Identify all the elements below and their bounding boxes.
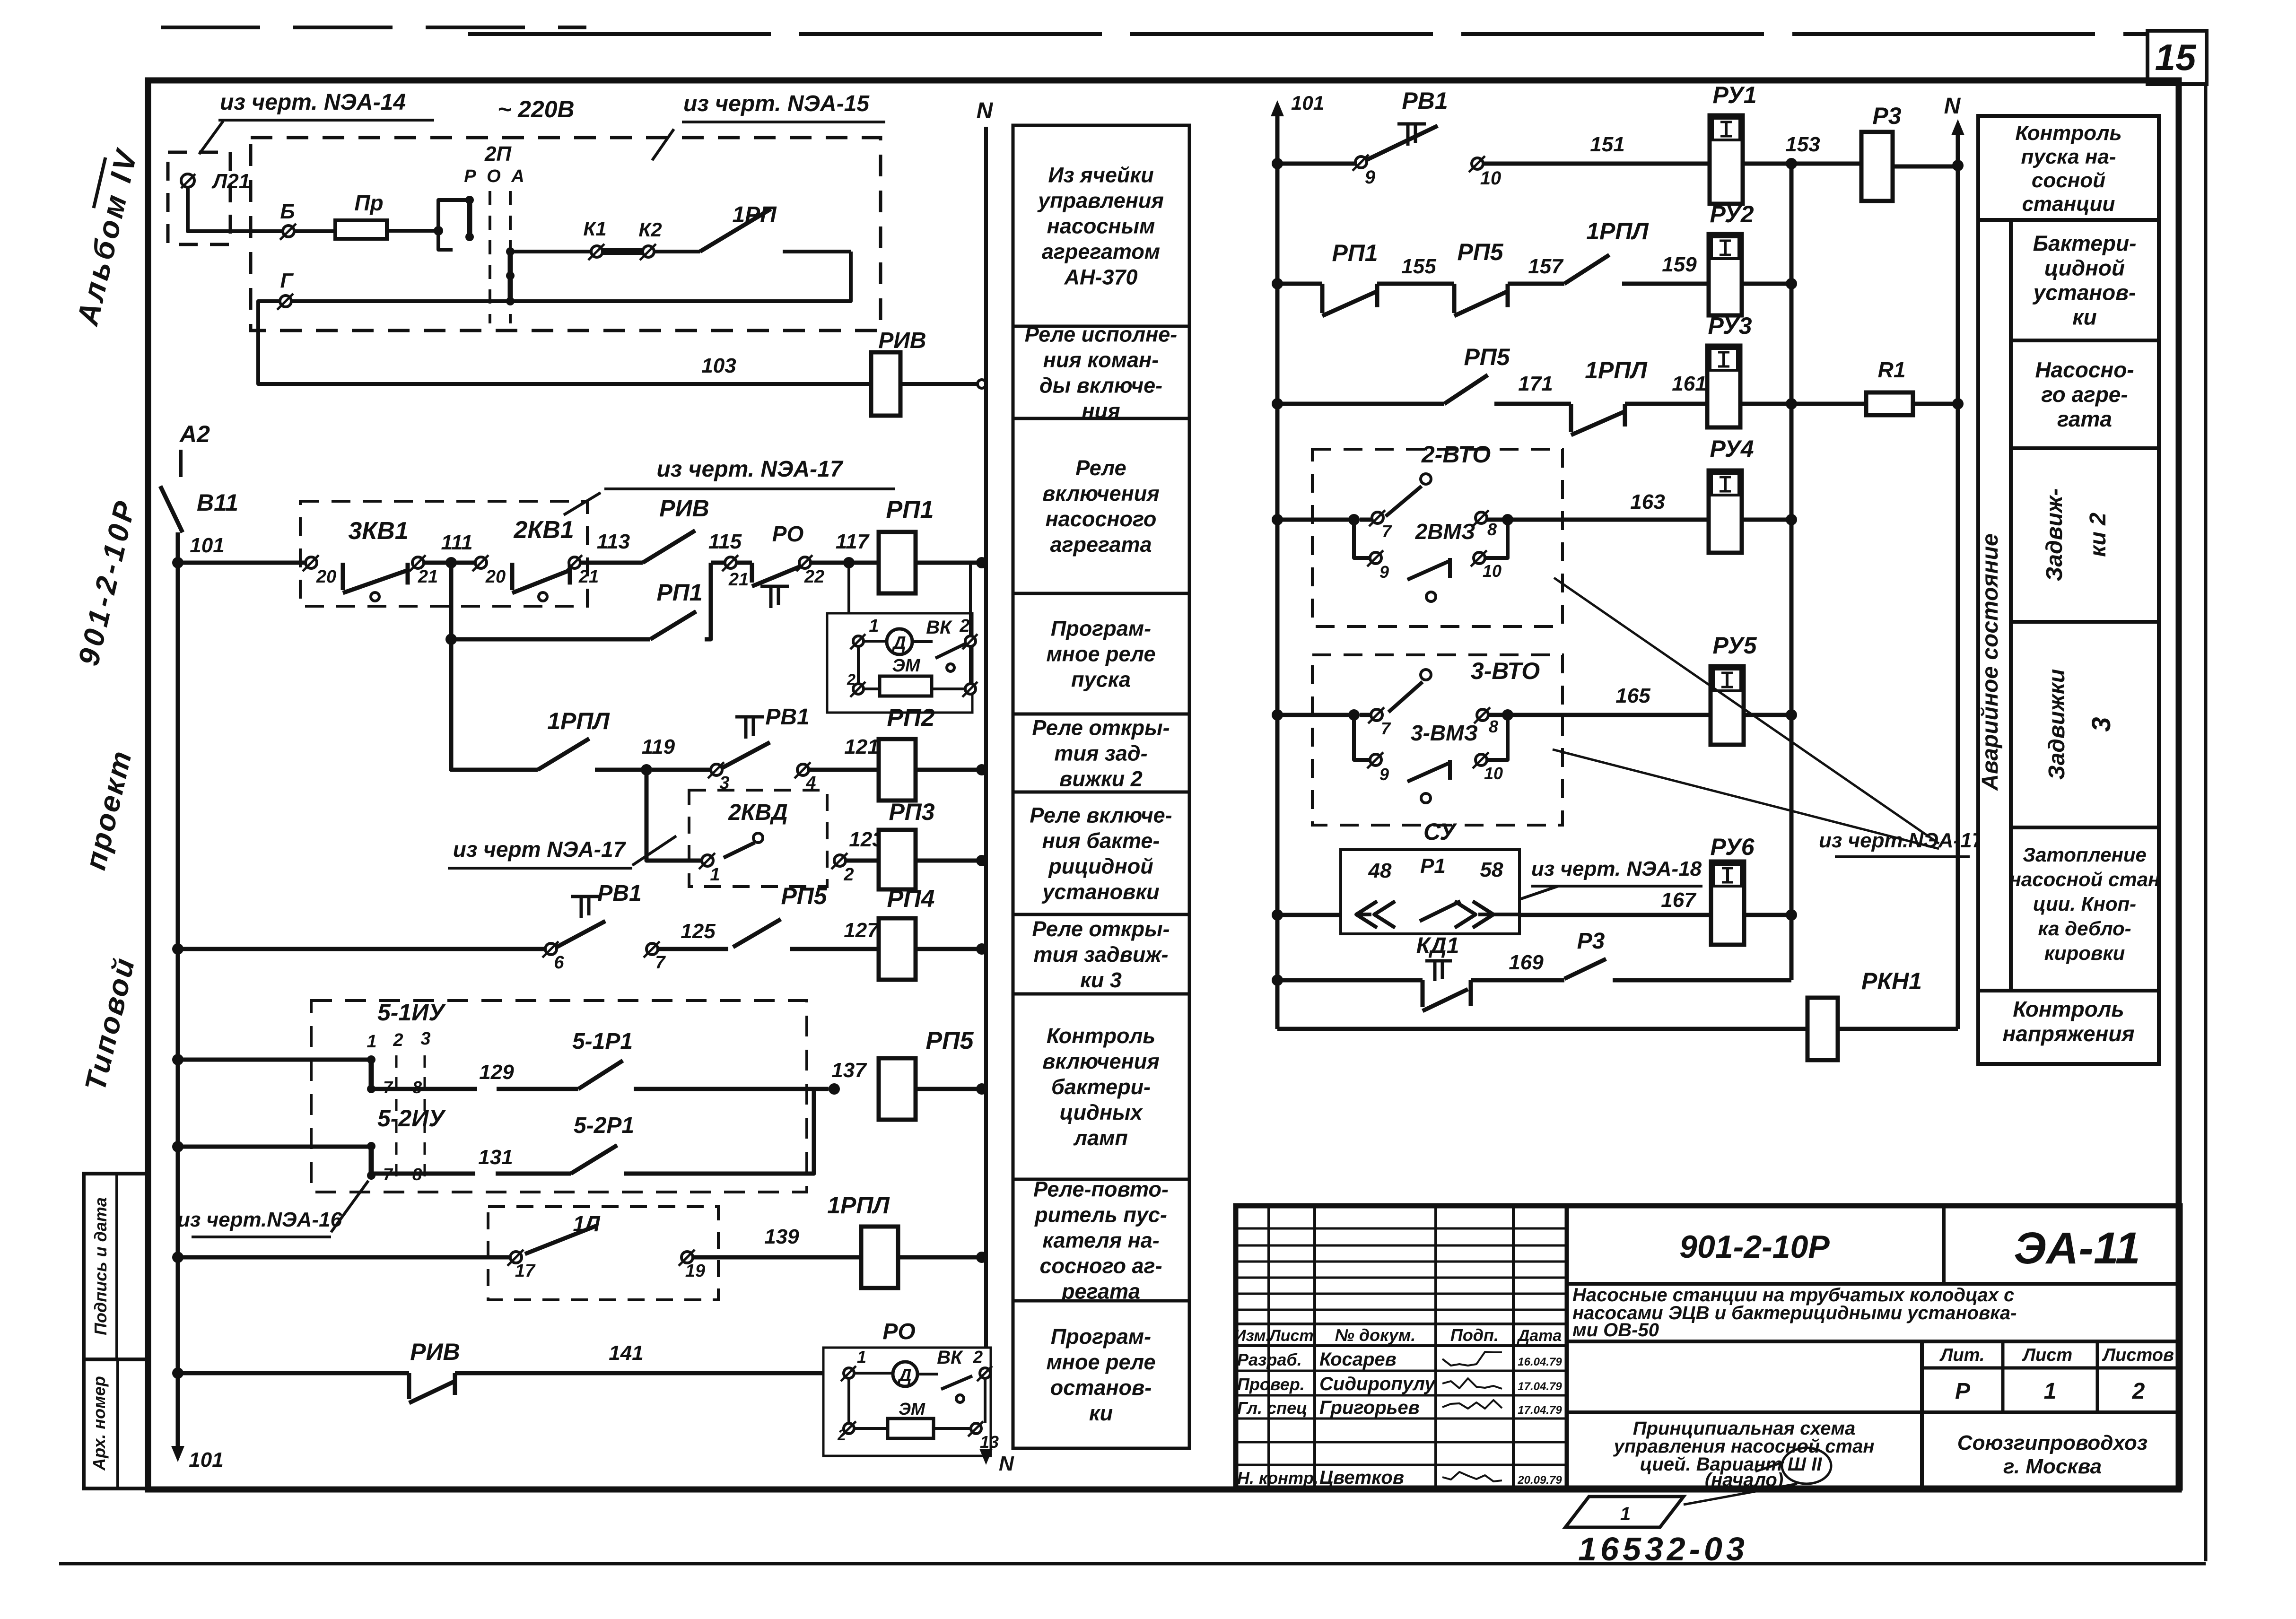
svg-text:из черт. NЭА-18: из черт. NЭА-18 xyxy=(1531,857,1702,880)
svg-text:ми ОВ-50: ми ОВ-50 xyxy=(1572,1320,1659,1340)
svg-text:901-2-10Р: 901-2-10Р xyxy=(1679,1229,1830,1265)
svg-text:17: 17 xyxy=(515,1261,536,1281)
svg-text:1: 1 xyxy=(869,616,879,636)
svg-text:А2: А2 xyxy=(179,421,210,447)
svg-text:2КВ1: 2КВ1 xyxy=(513,516,574,544)
svg-text:Косарев: Косарев xyxy=(1319,1349,1397,1370)
svg-text:20.09.79: 20.09.79 xyxy=(1517,1474,1562,1487)
svg-text:169: 169 xyxy=(1509,951,1544,974)
svg-text:111: 111 xyxy=(441,531,473,554)
svg-text:ния бакте-: ния бакте- xyxy=(1042,829,1160,853)
svg-text:121: 121 xyxy=(844,735,879,758)
svg-text:станции: станции xyxy=(2022,192,2115,216)
svg-text:8: 8 xyxy=(1487,520,1497,539)
svg-text:1Л: 1Л xyxy=(573,1211,601,1236)
svg-text:ния коман-: ния коман- xyxy=(1043,348,1159,372)
svg-text:из черт.NЭА-17: из черт.NЭА-17 xyxy=(1819,829,1985,852)
svg-text:Задвижки: Задвижки xyxy=(2044,669,2069,780)
svg-text:119: 119 xyxy=(642,735,675,758)
svg-text:20: 20 xyxy=(485,567,506,587)
svg-text:Реле-повто-: Реле-повто- xyxy=(1033,1177,1169,1201)
svg-text:Насосно-: Насосно- xyxy=(2035,357,2134,382)
svg-text:кировки: кировки xyxy=(2044,942,2125,964)
svg-text:ды включе-: ды включе- xyxy=(1039,374,1162,398)
svg-text:N: N xyxy=(1944,94,1961,119)
svg-text:10: 10 xyxy=(1483,561,1502,581)
svg-text:Разраб.: Разраб. xyxy=(1237,1350,1302,1369)
svg-text:58: 58 xyxy=(1480,858,1503,881)
svg-text:3-ВТО: 3-ВТО xyxy=(1471,658,1540,684)
svg-text:РУ5: РУ5 xyxy=(1712,632,1757,659)
svg-text:5-1ИУ: 5-1ИУ xyxy=(377,999,446,1026)
svg-text:ритель пус-: ритель пус- xyxy=(1034,1203,1167,1227)
svg-text:РП5: РП5 xyxy=(925,1027,974,1054)
svg-text:из черт. NЭА-15: из черт. NЭА-15 xyxy=(683,91,870,116)
svg-text:163: 163 xyxy=(1630,490,1665,514)
svg-text:1РПЛ: 1РПЛ xyxy=(547,708,610,734)
svg-text:13: 13 xyxy=(980,1432,999,1452)
svg-text:включения: включения xyxy=(1042,481,1160,505)
svg-text:Пр: Пр xyxy=(354,191,383,215)
svg-text:17.04.79: 17.04.79 xyxy=(1518,1404,1562,1417)
svg-text:Контроль: Контроль xyxy=(2013,997,2124,1021)
svg-text:насосного: насосного xyxy=(1046,507,1157,531)
svg-text:включения: включения xyxy=(1042,1049,1160,1073)
svg-text:2ВМЗ: 2ВМЗ xyxy=(1415,519,1475,544)
svg-text:Листов: Листов xyxy=(2102,1345,2174,1365)
svg-text:1: 1 xyxy=(710,865,720,885)
svg-text:Задвиж-: Задвиж- xyxy=(2042,488,2067,582)
svg-text:цидных: цидных xyxy=(1059,1100,1143,1124)
svg-text:131: 131 xyxy=(478,1146,513,1169)
svg-text:2: 2 xyxy=(843,865,854,885)
svg-text:5-1Р1: 5-1Р1 xyxy=(572,1029,633,1054)
svg-text:ции. Кноп-: ции. Кноп- xyxy=(2033,893,2136,915)
svg-text:из черт.NЭА-16: из черт.NЭА-16 xyxy=(177,1208,342,1231)
svg-text:Реле: Реле xyxy=(1075,456,1126,480)
svg-text:16.04.79: 16.04.79 xyxy=(1518,1356,1562,1368)
svg-text:1РПЛ: 1РПЛ xyxy=(1585,357,1648,383)
svg-text:КД1: КД1 xyxy=(1416,933,1459,958)
svg-text:СУ: СУ xyxy=(1423,818,1458,845)
svg-text:РУ3: РУ3 xyxy=(1708,313,1752,339)
svg-text:тия задвиж-: тия задвиж- xyxy=(1033,942,1168,966)
svg-text:5-2ИУ: 5-2ИУ xyxy=(377,1105,446,1132)
svg-text:РИВ: РИВ xyxy=(878,328,926,353)
svg-text:РП5: РП5 xyxy=(781,883,827,909)
svg-text:Д: Д xyxy=(897,1366,911,1385)
svg-text:ЭМ: ЭМ xyxy=(899,1399,925,1419)
svg-text:кателя на-: кателя на- xyxy=(1042,1228,1160,1253)
svg-text:РП5: РП5 xyxy=(1464,344,1510,370)
svg-text:Програм-: Програм- xyxy=(1051,617,1151,641)
svg-text:Альбом IV: Альбом IV xyxy=(70,145,144,330)
svg-text:Подп.: Подп. xyxy=(1450,1325,1499,1345)
svg-text:157: 157 xyxy=(1528,255,1564,278)
svg-text:113: 113 xyxy=(597,530,630,553)
svg-text:РУ6: РУ6 xyxy=(1710,834,1755,860)
svg-text:1: 1 xyxy=(1620,1504,1631,1524)
svg-text:В11: В11 xyxy=(197,489,238,516)
svg-text:Реле откры-: Реле откры- xyxy=(1032,917,1170,941)
svg-text:управления: управления xyxy=(1037,189,1164,213)
svg-text:ки 3: ки 3 xyxy=(1080,968,1122,992)
svg-text:РП1: РП1 xyxy=(656,579,702,606)
svg-text:Реле откры-: Реле откры- xyxy=(1032,716,1170,740)
svg-text:Контроль: Контроль xyxy=(2015,122,2121,145)
svg-text:9: 9 xyxy=(1379,562,1389,582)
svg-text:127: 127 xyxy=(844,919,880,942)
svg-text:129: 129 xyxy=(479,1061,514,1084)
svg-text:Реле включе-: Реле включе- xyxy=(1030,803,1172,827)
svg-text:РП1: РП1 xyxy=(1332,240,1378,266)
svg-text:139: 139 xyxy=(764,1225,799,1248)
svg-text:N: N xyxy=(999,1452,1014,1475)
svg-text:Н. контр.: Н. контр. xyxy=(1237,1468,1318,1488)
svg-text:N: N xyxy=(977,98,994,123)
svg-text:Подпись и дата: Подпись и дата xyxy=(91,1197,110,1335)
svg-text:РКН1: РКН1 xyxy=(1861,968,1922,994)
svg-text:агрегатом: агрегатом xyxy=(1042,240,1160,264)
svg-text:Гл. спец: Гл. спец xyxy=(1237,1398,1307,1418)
svg-text:2: 2 xyxy=(2132,1379,2145,1404)
svg-text:15: 15 xyxy=(2155,36,2197,78)
svg-text:РВ1: РВ1 xyxy=(1402,87,1448,114)
svg-text:рицидной: рицидной xyxy=(1048,854,1153,879)
svg-text:~ 220В: ~ 220В xyxy=(498,96,575,122)
svg-text:Г: Г xyxy=(280,269,294,292)
svg-text:171: 171 xyxy=(1518,372,1553,395)
svg-text:мное реле: мное реле xyxy=(1047,1350,1156,1374)
svg-text:РП1: РП1 xyxy=(886,496,934,523)
svg-text:ламп: ламп xyxy=(1073,1126,1128,1150)
svg-text:3: 3 xyxy=(2086,717,2116,731)
svg-text:останов-: останов- xyxy=(1050,1375,1152,1400)
svg-text:1РПЛ: 1РПЛ xyxy=(1586,218,1649,244)
svg-text:цидной: цидной xyxy=(2044,256,2125,280)
svg-text:1: 1 xyxy=(2044,1379,2057,1404)
svg-text:Лит.: Лит. xyxy=(1939,1345,1984,1365)
svg-text:РВ1: РВ1 xyxy=(597,881,641,906)
svg-text:РУ4: РУ4 xyxy=(1710,435,1754,462)
svg-text:мное реле: мное реле xyxy=(1047,642,1156,666)
svg-text:РО: РО xyxy=(772,522,804,546)
svg-text:РИВ: РИВ xyxy=(659,495,709,522)
svg-text:Р3: Р3 xyxy=(1872,103,1901,129)
svg-text:9: 9 xyxy=(1365,167,1376,188)
svg-text:гата: гата xyxy=(2057,407,2112,431)
svg-text:101: 101 xyxy=(190,534,224,557)
svg-text:из черт. NЭА-17: из черт. NЭА-17 xyxy=(656,457,843,482)
svg-text:ЭМ: ЭМ xyxy=(892,656,921,676)
svg-text:117: 117 xyxy=(836,530,870,553)
svg-text:Сидиропулу: Сидиропулу xyxy=(1319,1374,1436,1394)
svg-text:Р3: Р3 xyxy=(1577,929,1605,954)
svg-text:Григорьев: Григорьев xyxy=(1319,1397,1420,1418)
svg-text:насосной стан: насосной стан xyxy=(2009,868,2160,890)
svg-text:РП4: РП4 xyxy=(887,885,934,913)
svg-text:6: 6 xyxy=(554,953,564,973)
svg-text:Р О А: Р О А xyxy=(464,166,527,186)
svg-text:153: 153 xyxy=(1785,133,1820,156)
svg-text:Цветков: Цветков xyxy=(1319,1467,1404,1488)
svg-text:101: 101 xyxy=(189,1448,223,1471)
svg-text:сосной: сосной xyxy=(2032,169,2105,192)
svg-text:5-2Р1: 5-2Р1 xyxy=(574,1113,634,1138)
svg-text:Изм.: Изм. xyxy=(1234,1327,1270,1345)
svg-text:Дата: Дата xyxy=(1517,1327,1562,1345)
svg-text:агрегата: агрегата xyxy=(1050,532,1152,557)
svg-text:Д: Д xyxy=(891,633,906,653)
svg-text:7: 7 xyxy=(655,953,666,973)
svg-text:РУ1: РУ1 xyxy=(1712,82,1756,108)
svg-text:1РП: 1РП xyxy=(732,202,777,227)
svg-text:РП3: РП3 xyxy=(889,799,934,825)
svg-text:165: 165 xyxy=(1615,684,1650,707)
svg-text:10: 10 xyxy=(1480,168,1502,189)
svg-text:проект: проект xyxy=(79,747,138,873)
svg-text:Провер.: Провер. xyxy=(1237,1375,1305,1394)
svg-text:155: 155 xyxy=(1401,255,1436,278)
svg-text:РО: РО xyxy=(882,1319,915,1344)
svg-text:РП2: РП2 xyxy=(887,704,934,731)
svg-text:ка дебло-: ка дебло- xyxy=(2038,917,2131,940)
svg-text:101: 101 xyxy=(1291,92,1324,114)
svg-text:151: 151 xyxy=(1590,133,1624,156)
svg-text:насосным: насосным xyxy=(1047,214,1155,238)
svg-text:ки 2: ки 2 xyxy=(2086,513,2111,557)
svg-text:из черт NЭА-17: из черт NЭА-17 xyxy=(453,837,627,862)
svg-text:48: 48 xyxy=(1368,859,1392,882)
svg-text:ки: ки xyxy=(1089,1401,1113,1425)
svg-text:Из ячейки: Из ячейки xyxy=(1048,163,1153,187)
svg-text:Р: Р xyxy=(1955,1379,1971,1404)
svg-text:Союзгипроводхоз: Союзгипроводхоз xyxy=(1957,1431,2148,1454)
svg-text:Типовой: Типовой xyxy=(79,954,141,1094)
svg-text:РП5: РП5 xyxy=(1457,239,1503,265)
svg-text:Затопление: Затопление xyxy=(2023,844,2147,866)
svg-text:19: 19 xyxy=(685,1261,705,1281)
svg-text:125: 125 xyxy=(681,920,716,943)
svg-text:РИВ: РИВ xyxy=(410,1339,460,1365)
svg-text:1: 1 xyxy=(367,1032,376,1052)
svg-text:115: 115 xyxy=(708,530,742,553)
svg-text:Аварийное состояние: Аварийное состояние xyxy=(1978,533,2003,791)
svg-text:г. Москва: г. Москва xyxy=(2003,1455,2102,1478)
svg-text:сосного аг-: сосного аг- xyxy=(1039,1254,1162,1278)
svg-text:Р1: Р1 xyxy=(1420,854,1446,878)
svg-text:2: 2 xyxy=(959,616,969,636)
svg-text:21: 21 xyxy=(728,570,749,590)
svg-text:РУ2: РУ2 xyxy=(1710,201,1754,227)
svg-text:Лист: Лист xyxy=(1268,1327,1313,1345)
svg-text:21: 21 xyxy=(418,567,438,587)
svg-text:3-ВМЗ: 3-ВМЗ xyxy=(1411,721,1478,745)
svg-text:1: 1 xyxy=(857,1347,866,1367)
svg-text:ВК: ВК xyxy=(937,1347,963,1368)
svg-text:Реле исполне-: Реле исполне- xyxy=(1025,322,1178,347)
svg-text:1РПЛ: 1РПЛ xyxy=(827,1192,890,1219)
svg-text:тия зад-: тия зад- xyxy=(1054,741,1147,766)
svg-text:Л21: Л21 xyxy=(211,170,250,193)
svg-text:напряжения: напряжения xyxy=(2002,1021,2134,1046)
svg-text:16532-03: 16532-03 xyxy=(1578,1531,1748,1567)
svg-text:№ докум.: № докум. xyxy=(1335,1325,1416,1345)
svg-text:Бактери-: Бактери- xyxy=(2033,231,2137,256)
svg-text:141: 141 xyxy=(609,1341,643,1365)
svg-text:К1: К1 xyxy=(583,218,606,240)
svg-text:2П: 2П xyxy=(484,142,512,165)
svg-text:вижки 2: вижки 2 xyxy=(1059,767,1143,791)
svg-text:21: 21 xyxy=(578,567,599,587)
svg-text:2-ВТО: 2-ВТО xyxy=(1421,441,1491,468)
svg-text:8: 8 xyxy=(1489,717,1498,736)
svg-text:установки: установки xyxy=(1041,880,1159,904)
svg-text:901-2-10Р: 901-2-10Р xyxy=(72,495,143,669)
svg-text:ВК: ВК xyxy=(926,617,952,638)
svg-text:РВ1: РВ1 xyxy=(765,705,809,730)
svg-text:АН-370: АН-370 xyxy=(1064,265,1137,289)
svg-text:Лист: Лист xyxy=(2022,1345,2072,1365)
svg-text:3: 3 xyxy=(420,1029,430,1049)
svg-text:2: 2 xyxy=(393,1030,403,1050)
svg-text:R1: R1 xyxy=(1878,357,1906,382)
svg-text:20: 20 xyxy=(316,567,336,587)
svg-text:Б: Б xyxy=(280,200,295,223)
svg-text:161: 161 xyxy=(1672,372,1706,395)
svg-text:7: 7 xyxy=(1381,719,1391,738)
svg-text:Арх. номер: Арх. номер xyxy=(89,1376,109,1471)
svg-text:пуска: пуска xyxy=(1071,668,1131,692)
svg-text:3КВ1: 3КВ1 xyxy=(348,517,408,545)
svg-text:10: 10 xyxy=(1484,764,1503,783)
svg-text:Програм-: Програм- xyxy=(1051,1324,1151,1349)
svg-text:22: 22 xyxy=(804,567,824,587)
svg-text:2: 2 xyxy=(973,1347,983,1367)
svg-text:137: 137 xyxy=(831,1059,867,1082)
svg-text:бактери-: бактери- xyxy=(1051,1075,1151,1099)
svg-text:установ-: установ- xyxy=(2033,280,2136,305)
svg-text:7: 7 xyxy=(1382,522,1392,541)
svg-text:2КВД: 2КВД xyxy=(728,800,788,825)
svg-text:9: 9 xyxy=(1379,765,1389,784)
svg-text:пуска на-: пуска на- xyxy=(2021,145,2116,168)
svg-text:103: 103 xyxy=(701,354,736,377)
svg-text:из черт. NЭА-14: из черт. NЭА-14 xyxy=(220,90,406,115)
svg-text:К2: К2 xyxy=(638,218,662,241)
svg-text:ЭА-11: ЭА-11 xyxy=(2014,1223,2140,1273)
svg-text:ки: ки xyxy=(2072,305,2096,330)
svg-text:167: 167 xyxy=(1661,888,1697,912)
svg-text:Контроль: Контроль xyxy=(1047,1024,1155,1048)
svg-text:159: 159 xyxy=(1662,253,1697,276)
svg-text:го агре-: го агре- xyxy=(2041,382,2128,407)
svg-text:17.04.79: 17.04.79 xyxy=(1518,1380,1562,1393)
